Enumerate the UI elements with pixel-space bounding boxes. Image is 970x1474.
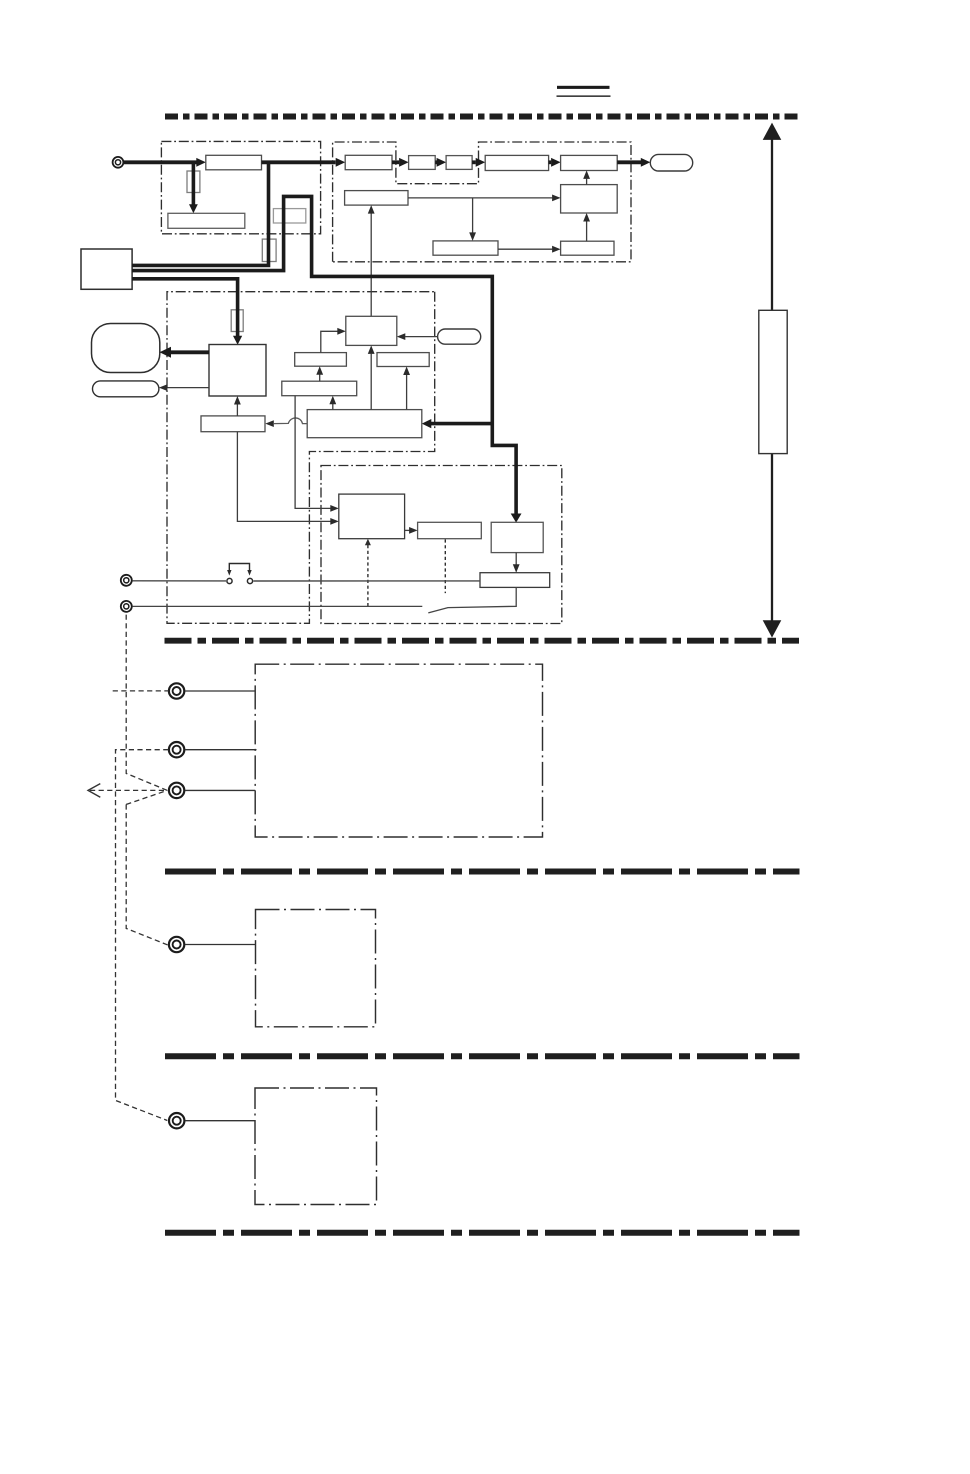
wire BR up to T5b bbox=[586, 221, 588, 241]
title underline thick bbox=[557, 86, 610, 89]
dashed module box 2 (top right, notched outline) bbox=[333, 142, 631, 262]
thin arrow SQ to P2 bbox=[167, 387, 209, 389]
separator line 1 bbox=[165, 114, 799, 120]
wire Ta to box5 bbox=[185, 690, 255, 692]
long wire R1 up to T6 bbox=[370, 213, 372, 316]
block B4 bbox=[480, 573, 550, 588]
block A bbox=[206, 155, 262, 170]
dashed stub to Ta bbox=[113, 690, 169, 692]
wire P3 to R1 bbox=[405, 336, 438, 338]
terminal Ta bbox=[169, 683, 184, 698]
wire R5 to R6 with break squiggle bbox=[274, 418, 307, 424]
block B3 bbox=[491, 522, 543, 552]
terminal T1 bbox=[121, 575, 132, 586]
block T6 (wide, in box2) bbox=[345, 191, 408, 206]
wire Td to box6 bbox=[185, 944, 256, 946]
block R5 (wide) bbox=[307, 410, 422, 438]
wire T2 (open switch fixed side) bbox=[132, 605, 422, 607]
dashed link from Tb down to Te bbox=[116, 750, 169, 1121]
dashed arrow pointing left at Tc bbox=[90, 789, 165, 791]
trace 2: external block over to lower-right, into B3 bbox=[132, 196, 516, 514]
wire Tb to box5 bbox=[185, 749, 257, 751]
wire block F to block G bbox=[549, 160, 552, 164]
wire R5 up to R4 bbox=[332, 404, 334, 410]
wire T1 to switch contact bbox=[132, 580, 226, 582]
block B1 bbox=[339, 494, 405, 539]
trace 3: external block down into SQ bbox=[132, 279, 238, 336]
wire R4 down to B1 bbox=[295, 396, 330, 509]
switch contact circle 1 bbox=[227, 578, 232, 583]
small relay block SR bbox=[273, 209, 305, 223]
wire B3 down to B4 bbox=[515, 553, 517, 565]
separator line 3 bbox=[165, 869, 800, 875]
wire R5 up to R1 bbox=[370, 354, 372, 410]
wire Tc to box5 bbox=[185, 789, 255, 791]
tall rectangle on arrow bbox=[759, 310, 787, 453]
block SQ (square) bbox=[209, 345, 266, 397]
dashed module box 3 (middle left, L-shaped outline) bbox=[167, 292, 435, 624]
block BM (bottom middle of box2) bbox=[433, 241, 498, 255]
terminal Te bbox=[169, 1113, 184, 1128]
block R6 bbox=[201, 416, 265, 432]
wire R6 down to B1 bbox=[237, 432, 330, 522]
block T5b (tall, right in box2) bbox=[561, 185, 618, 213]
block R2 bbox=[295, 353, 347, 367]
trace 1: external block up to main line bbox=[132, 162, 268, 265]
wire block D to block E bbox=[435, 160, 437, 164]
block R4 bbox=[282, 381, 357, 396]
wire block C to block D bbox=[392, 160, 399, 164]
wire T6 to T5b bbox=[408, 197, 552, 199]
block D bbox=[409, 156, 436, 170]
separator line 4 bbox=[165, 1053, 800, 1059]
resistor block (vertical, above SQ) bbox=[231, 310, 243, 332]
wire junction down through resistor with arrow to block B bbox=[192, 162, 196, 205]
wire block G to output pill (thick) bbox=[617, 160, 641, 164]
block E bbox=[446, 156, 472, 170]
dashed module box 7 (section 4) bbox=[255, 1088, 377, 1205]
wire R5 up to R3 bbox=[406, 375, 408, 410]
external block (far left) bbox=[81, 249, 132, 289]
pill P2 bbox=[93, 381, 159, 397]
block B2 bbox=[418, 522, 482, 538]
block C bbox=[345, 155, 392, 169]
right side double-headed arrow bbox=[763, 123, 782, 638]
separator line 2 bbox=[165, 638, 800, 644]
switch arm to B4 bbox=[428, 587, 516, 613]
terminal T2 bbox=[121, 601, 132, 612]
CRT screen shape bbox=[92, 324, 160, 373]
wire R6 up to SQ bbox=[236, 404, 238, 416]
dashed wire below B2 bbox=[444, 539, 446, 593]
wire junction down to BM bbox=[472, 198, 474, 233]
wire switch to B4 bbox=[253, 580, 480, 582]
wire B1 to B2 bbox=[405, 529, 410, 531]
wire T0 to block A (thick) bbox=[124, 160, 197, 164]
dashed module box 5 (section 2 large) bbox=[255, 664, 542, 837]
dashed link from T2 down to Tc and Td bbox=[126, 615, 168, 945]
block G bbox=[561, 155, 618, 170]
wire R4 up to R2 bbox=[319, 374, 321, 381]
dashed module box 4 (middle lower) bbox=[321, 466, 562, 624]
wire BM to BR bbox=[498, 248, 552, 250]
block F bbox=[485, 155, 548, 170]
terminal Tb bbox=[169, 742, 184, 757]
wire block E to block F bbox=[472, 160, 476, 164]
separator line 5 bbox=[165, 1230, 800, 1236]
switch contact circle 2 bbox=[247, 578, 252, 583]
input terminal T0 bbox=[113, 157, 124, 168]
terminal Tc bbox=[169, 783, 184, 798]
wire Te to box7 bbox=[185, 1120, 255, 1122]
dashed module box 1 (top left) bbox=[161, 141, 320, 233]
block R1 bbox=[346, 316, 397, 345]
wire block A to block C (thick) bbox=[262, 160, 336, 164]
block B (wide) bbox=[168, 213, 245, 228]
terminal Td bbox=[169, 937, 184, 952]
pill P3 bbox=[438, 329, 481, 344]
switch actuator bracket bbox=[229, 564, 249, 571]
trace 2 branch arrow into R5 bbox=[431, 422, 493, 426]
wire R2 top to R1 bbox=[321, 331, 338, 352]
wire T5b up to block G bbox=[586, 179, 588, 185]
block R3 bbox=[377, 353, 429, 367]
dashed module box 6 (section 3) bbox=[256, 910, 376, 1027]
title underline thin bbox=[557, 95, 611, 97]
resistor block (vertical, left of SR) bbox=[262, 239, 276, 261]
output pill bbox=[650, 154, 692, 171]
thick arrow SQ to CRT bbox=[171, 350, 210, 354]
resistor block (vertical, under down arrow in box1) bbox=[187, 171, 200, 193]
block BR (bottom right of box2) bbox=[561, 241, 614, 255]
dashed wire below B1 with up arrow bbox=[367, 545, 369, 606]
